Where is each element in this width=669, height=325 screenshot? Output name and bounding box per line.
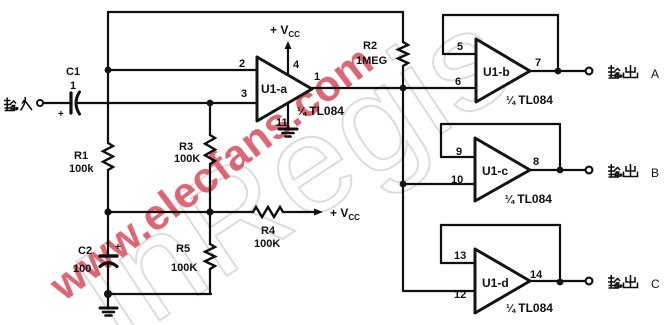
wire U1-b box right	[557, 15, 559, 71]
junction mid rail left	[104, 208, 111, 215]
wire left vertical top segment	[107, 12, 109, 70]
svg-text:4: 4	[293, 59, 300, 71]
svg-text:7: 7	[535, 57, 541, 69]
svg-text:R5: R5	[176, 243, 190, 255]
wire pin3 input	[77, 102, 257, 104]
svg-text:100K: 100K	[171, 262, 197, 274]
node output C label (Chinese: shu-chu)	[608, 275, 638, 288]
svg-text:R4: R4	[261, 225, 276, 237]
op-amp U1-b	[476, 39, 530, 102]
svg-text:11: 11	[276, 117, 288, 129]
gray watermark outline text	[50, 0, 537, 325]
junction bottom ground node	[104, 290, 112, 298]
resistor R1	[103, 143, 113, 170]
resistor R5	[205, 244, 215, 269]
wire C2 top	[107, 212, 109, 254]
capacitor C2	[100, 254, 117, 257]
junction pin10 node	[400, 181, 407, 188]
arrowhead Vcc right	[314, 209, 323, 216]
resistor R3	[205, 135, 215, 164]
resistor R2	[398, 42, 408, 66]
wire top feedback rail	[108, 11, 403, 13]
wire pin5	[443, 53, 476, 55]
svg-text:5: 5	[457, 41, 463, 53]
svg-text:100k: 100k	[69, 163, 94, 175]
terminal output B circle	[586, 167, 593, 174]
svg-text:R2: R2	[363, 40, 377, 52]
svg-text:9: 9	[456, 146, 462, 158]
wire feedback vertical low	[402, 184, 404, 291]
svg-text:100: 100	[73, 263, 91, 275]
svg-text:13: 13	[454, 250, 466, 262]
wire ground stem	[107, 294, 109, 307]
wire U1-d box right	[559, 225, 561, 282]
svg-text:2: 2	[239, 58, 245, 70]
svg-text:U1-a: U1-a	[261, 82, 287, 96]
svg-text:R1: R1	[74, 150, 88, 162]
svg-text:¼ TL084: ¼ TL084	[505, 192, 552, 206]
capacitor C1	[69, 93, 72, 113]
arrowhead pin4 Vcc	[285, 41, 292, 49]
svg-text:1: 1	[70, 80, 76, 92]
wire pin9	[441, 156, 475, 158]
junction U1-b output node	[555, 68, 562, 75]
ground under pin11	[279, 128, 297, 131]
wire R4 to Vcc arrow	[283, 211, 314, 213]
svg-text:6: 6	[455, 76, 461, 88]
svg-text:+: +	[58, 109, 64, 120]
svg-text:U1-d: U1-d	[482, 276, 509, 290]
wire U1-c box right	[559, 124, 561, 170]
red watermark www.elecfans.com	[40, 36, 382, 310]
svg-text:1: 1	[314, 71, 320, 83]
wire feedback vertical mid	[402, 88, 404, 184]
svg-text:C2: C2	[78, 245, 92, 257]
node output B label (Chinese: shu-chu)	[608, 164, 638, 177]
svg-text:+: +	[115, 242, 121, 253]
svg-text:8: 8	[533, 156, 539, 168]
junction mid rail R3/R5	[206, 208, 213, 215]
junction U1-a output node	[400, 85, 407, 92]
wire R3 bottom	[209, 164, 211, 212]
op-amp U1-a	[257, 57, 312, 121]
wire U1-b output	[530, 70, 585, 72]
wire pin11	[287, 103, 289, 127]
svg-text:U1-c: U1-c	[482, 164, 508, 178]
junction pin2 node	[105, 67, 112, 74]
wire R3 top	[209, 103, 211, 135]
wire R5 top	[209, 212, 211, 244]
wire left vertical to R1	[107, 70, 109, 143]
wire U1-c box left	[440, 124, 442, 157]
svg-text:10: 10	[451, 174, 463, 186]
wire U1-d box top	[441, 224, 560, 226]
svg-text:¼ TL084: ¼ TL084	[506, 93, 553, 107]
svg-text:12: 12	[454, 289, 466, 301]
svg-text:U1-b: U1-b	[483, 65, 510, 79]
wire U1-d output	[530, 280, 585, 282]
wire bottom rail	[108, 293, 211, 295]
junction input/R3 node	[207, 100, 214, 107]
wire R2 bottom segment	[402, 66, 404, 88]
svg-text:A: A	[651, 67, 659, 81]
svg-text:1MEG: 1MEG	[356, 55, 387, 67]
wire U1-b box top	[443, 14, 558, 16]
wire R1 bottom	[107, 170, 109, 212]
wire R5 bottom	[209, 269, 211, 294]
wire U1-a output to pin6	[312, 87, 476, 89]
terminal output C circle	[586, 278, 593, 285]
svg-text:100K: 100K	[174, 153, 200, 165]
wire pin12	[403, 290, 475, 292]
op-amp U1-c	[475, 138, 530, 201]
svg-text:3: 3	[241, 88, 247, 100]
svg-text:B: B	[651, 166, 659, 180]
wire pin13	[441, 262, 475, 264]
wire R2 top segment	[402, 12, 404, 42]
svg-text:¼ TL084: ¼ TL084	[297, 104, 344, 118]
junction U1-d output node	[557, 279, 564, 286]
svg-text:R3: R3	[179, 141, 193, 153]
wire pin4 Vcc	[287, 48, 289, 75]
wire U1-b box left	[442, 15, 444, 54]
terminal output A circle	[586, 68, 593, 75]
junction U1-c output node	[557, 167, 564, 174]
wire mid rail	[108, 211, 253, 213]
svg-text:14: 14	[530, 269, 543, 281]
op-amp U1-d	[475, 249, 530, 313]
terminal input circle	[37, 100, 43, 106]
node output A label (Chinese: shu-chu)	[608, 65, 638, 78]
svg-text:100K: 100K	[254, 238, 280, 250]
wire C2 bottom	[107, 263, 109, 294]
wire U1-c output	[530, 169, 585, 171]
svg-text:C: C	[651, 277, 660, 291]
wire input to C1	[43, 102, 69, 104]
wire pin2 input	[108, 69, 257, 71]
node input label (Chinese: shu-ru)	[4, 97, 32, 111]
ground under C2	[100, 307, 117, 310]
svg-text:C1: C1	[66, 66, 80, 78]
wire U1-c box top	[441, 123, 560, 125]
wire pin10	[403, 183, 475, 185]
resistor R4	[253, 207, 283, 217]
svg-text:¼ TL084: ¼ TL084	[506, 301, 553, 315]
wire U1-d box left	[440, 225, 442, 263]
